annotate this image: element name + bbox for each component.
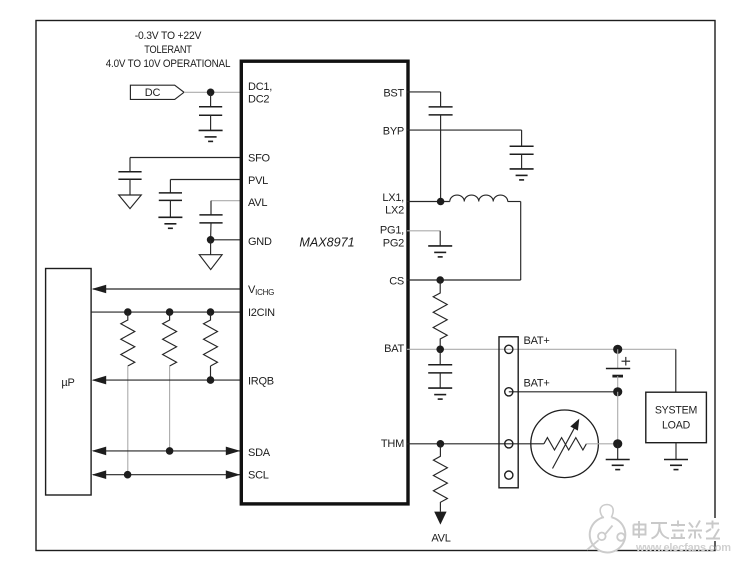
node: IRQB junction xyxy=(207,376,215,384)
wire SCL bidirectional xyxy=(92,470,241,479)
resistor R_CS (current sense) xyxy=(433,280,447,349)
resistor R_THM xyxy=(433,444,447,512)
ground (BAT cap) xyxy=(428,388,452,399)
svg-text:GND: GND xyxy=(248,236,272,248)
wire GND xyxy=(211,239,242,241)
node: LX junction xyxy=(437,198,445,206)
battery B1 xyxy=(606,349,630,392)
svg-text:PVL: PVL xyxy=(248,175,268,187)
node on I2CIN (R2) xyxy=(166,308,174,316)
svg-text:www.elecfans.com: www.elecfans.com xyxy=(635,542,731,554)
wire SFO xyxy=(130,158,242,172)
node on I2CIN (R3) xyxy=(207,308,215,316)
capacitor C_DC xyxy=(199,92,222,130)
svg-text:IRQB: IRQB xyxy=(248,375,274,387)
wire AVL xyxy=(211,201,242,215)
thermistor RT1 xyxy=(531,410,618,478)
svg-text:CS: CS xyxy=(389,275,404,287)
ground (PVL cap) xyxy=(158,217,182,228)
IC U1 MAX8971 xyxy=(241,61,408,504)
capacitor C_PVL xyxy=(159,193,182,217)
node on I2CIN (R1) xyxy=(124,308,132,316)
svg-text:THM: THM xyxy=(381,438,404,450)
node: SDA junction xyxy=(166,447,174,455)
svg-text:4.0V TO 10V OPERATIONAL: 4.0V TO 10V OPERATIONAL xyxy=(106,58,231,70)
microprocessor uP box xyxy=(46,269,92,496)
svg-text:BAT: BAT xyxy=(384,343,404,355)
node: battery positive junction xyxy=(613,345,622,354)
ground (PG pins) xyxy=(428,246,452,257)
node: GND junction xyxy=(207,236,215,244)
pin label LX1,LX2 xyxy=(382,192,404,217)
svg-text:BAT+: BAT+ xyxy=(524,335,550,347)
svg-text:LOAD: LOAD xyxy=(662,420,691,432)
ground (BYP cap) xyxy=(510,169,534,180)
node: CS junction xyxy=(436,276,444,284)
wire THM xyxy=(407,443,531,445)
capacitor C_BYP xyxy=(510,146,534,169)
svg-text:SFO: SFO xyxy=(248,153,271,165)
svg-text:MAX8971: MAX8971 xyxy=(299,236,354,250)
svg-text:BYP: BYP xyxy=(383,126,404,138)
capacitor C_SFO xyxy=(118,172,141,195)
note: input voltage rating text xyxy=(106,30,231,70)
svg-text:I2CIN: I2CIN xyxy=(248,307,275,319)
svg-text:SCL: SCL xyxy=(248,469,269,481)
ground (thermistor net) xyxy=(606,444,630,470)
ground triangle (GND pin) xyxy=(199,240,222,270)
pin label DC1,DC2 xyxy=(248,81,272,105)
capacitor C_AVL xyxy=(199,215,222,240)
svg-text:DC1,: DC1, xyxy=(248,81,272,93)
node: SCL junction xyxy=(124,471,132,479)
svg-text:BAT+: BAT+ xyxy=(524,378,550,390)
battery connector J1 xyxy=(499,337,518,488)
input flag DC xyxy=(130,85,184,99)
svg-text:AVL: AVL xyxy=(248,197,267,209)
wire BYP xyxy=(407,130,522,146)
svg-text:TOLERANT: TOLERANT xyxy=(144,44,192,56)
svg-text:PG2: PG2 xyxy=(383,237,404,249)
wire R3 tail to IRQB xyxy=(210,366,212,380)
wire R1 tail to SCL xyxy=(127,366,129,475)
wire IRQB with arrow to uP xyxy=(92,376,242,385)
svg-text:µP: µP xyxy=(61,377,74,389)
resistor R2 xyxy=(163,312,177,366)
svg-text:LX2: LX2 xyxy=(385,205,404,217)
wire DC to DC1/DC2 pin xyxy=(184,91,242,93)
watermark chinese glyphs xyxy=(712,518,720,541)
svg-text:DC: DC xyxy=(145,87,161,99)
wire BAT+ second row (connector to battery column) xyxy=(509,391,618,393)
node: BAT junction at cap xyxy=(436,346,444,354)
svg-text:-0.3V TO +22V: -0.3V TO +22V xyxy=(135,30,203,42)
wire battery column down xyxy=(617,392,619,444)
svg-text:PG1,: PG1, xyxy=(380,225,404,237)
system load box xyxy=(646,392,707,443)
ground (system load) xyxy=(664,443,688,470)
svg-text:BST: BST xyxy=(383,87,404,99)
wire R2 tail to SDA xyxy=(169,366,171,451)
wire VICHG with arrow to uP xyxy=(92,285,242,294)
node: THM junction xyxy=(437,440,445,448)
watermark logo xyxy=(587,505,625,553)
svg-text:SDA: SDA xyxy=(248,447,271,459)
wire I2CIN xyxy=(91,311,242,313)
node: DC input junction xyxy=(207,89,215,97)
node: battery negative junction xyxy=(613,387,622,396)
capacitor C_BST xyxy=(429,107,453,115)
inductor L1 xyxy=(450,195,508,201)
wire PG1/PG2 xyxy=(407,231,440,246)
wire BST xyxy=(407,92,441,107)
wire BAT rail xyxy=(407,348,676,350)
svg-text:AVL: AVL xyxy=(431,533,450,545)
pin label PG1,PG2 xyxy=(380,225,404,250)
ground triangle (SFO cap) xyxy=(119,195,142,209)
arrow to AVL rail xyxy=(434,512,446,525)
wire LX1/LX2 xyxy=(407,201,450,203)
wire CS xyxy=(407,279,521,281)
ground (DC input cap) xyxy=(199,130,223,141)
wire inductor to CS net xyxy=(508,202,521,281)
wire to system load xyxy=(675,349,677,392)
capacitor C_BAT xyxy=(428,349,452,388)
svg-text:DC2: DC2 xyxy=(248,93,269,105)
svg-text:SYSTEM: SYSTEM xyxy=(655,405,697,417)
svg-text:LX1,: LX1, xyxy=(382,192,404,204)
wire BST cap to LX node xyxy=(440,115,442,202)
wire SDA bidirectional xyxy=(92,447,241,456)
node: thermistor junction xyxy=(613,439,622,448)
wire PVL xyxy=(170,180,242,193)
resistor R3 xyxy=(204,312,218,366)
resistor R1 xyxy=(121,312,135,366)
